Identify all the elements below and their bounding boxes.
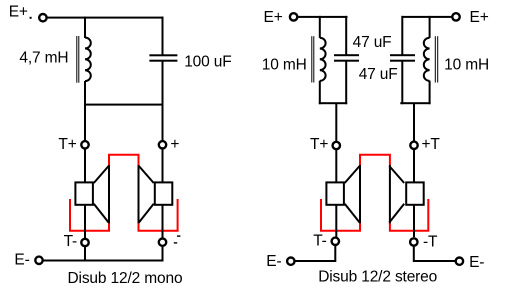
svg-text:T-: T-: [64, 233, 77, 250]
svg-text:E-: E-: [469, 254, 484, 271]
svg-text:100 uF: 100 uF: [184, 53, 231, 70]
svg-text:T+: T+: [58, 136, 76, 153]
svg-text:10 mH: 10 mH: [444, 57, 489, 74]
svg-text:+T: +T: [422, 136, 441, 153]
svg-text:Disub 12/2 mono: Disub 12/2 mono: [68, 270, 183, 287]
svg-text:47 uF: 47 uF: [359, 66, 398, 83]
svg-text:10 mH: 10 mH: [262, 56, 307, 73]
svg-text:47 uF: 47 uF: [353, 34, 392, 51]
svg-text:T-: T-: [313, 233, 326, 250]
svg-text:4,7 mH: 4,7 mH: [19, 50, 68, 67]
svg-text:E+: E+: [9, 4, 28, 21]
svg-text:-T: -T: [423, 234, 438, 251]
svg-text:E-: E-: [266, 253, 281, 270]
svg-text:E+: E+: [264, 9, 283, 26]
svg-text:T+: T+: [310, 136, 328, 153]
svg-text:+: +: [170, 136, 179, 153]
svg-text:E+: E+: [470, 9, 489, 26]
svg-text:E-: E-: [14, 252, 29, 269]
svg-text:Disub 12/2 stereo: Disub 12/2 stereo: [318, 269, 437, 286]
